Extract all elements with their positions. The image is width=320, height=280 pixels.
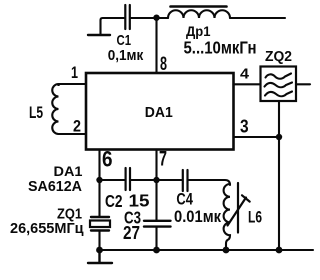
wire C1 to node [131, 17, 157, 19]
wire C4 right lead to L6 [189, 180, 231, 185]
wire ZQ2 bottom [278, 101, 280, 137]
node rail right [276, 247, 283, 254]
node rail L6 [223, 247, 230, 254]
wire C4 left lead [157, 179, 182, 181]
svg-text:L5: L5 [29, 103, 43, 122]
node rail left [96, 247, 103, 254]
node pin6 / C2 [96, 177, 102, 183]
svg-text:ZQ2: ZQ2 [265, 49, 292, 65]
svg-text:27: 27 [123, 222, 140, 243]
wire C3 to rail [155, 228, 157, 251]
ground top-left [88, 34, 110, 36]
IC DA1 [86, 73, 234, 150]
wire pin 6 down [98, 150, 100, 218]
svg-text:DA1: DA1 [54, 163, 83, 179]
filter ZQ2 wave 2 [265, 83, 293, 88]
svg-text:0,1мк: 0,1мк [108, 48, 144, 64]
wire pin 4 [234, 83, 262, 85]
capacitor C2 [126, 168, 130, 190]
wire pin 3 [234, 136, 280, 138]
wire pin 1 [60, 83, 86, 85]
svg-text:7: 7 [159, 148, 167, 171]
svg-text:DA1: DA1 [145, 105, 173, 121]
node pin7 / C4 [153, 177, 159, 183]
wire pin 8 [155, 18, 157, 73]
svg-text:1: 1 [71, 63, 78, 82]
svg-text:26,655МГц: 26,655МГц [10, 221, 84, 237]
wire ZQ1 to rail [98, 231, 100, 250]
node junction at +V rail [153, 15, 159, 21]
crystal ZQ1 body [90, 221, 110, 228]
core bar Dr1 [171, 5, 227, 8]
wire ZQ2 right stub [296, 83, 310, 85]
crystal ZQ1 bottom plate [91, 229, 109, 231]
node rail pin7 [153, 247, 160, 254]
inductor L6 [224, 184, 230, 250]
inductor L5 [52, 84, 60, 134]
inductor Dr1 [168, 10, 230, 18]
capacitor C4 [183, 170, 188, 191]
adjuster arrow L6 [228, 195, 250, 225]
svg-text:4: 4 [240, 66, 250, 82]
wire node to Dr1 [157, 17, 169, 19]
svg-text:8: 8 [160, 53, 167, 75]
svg-text:2: 2 [73, 118, 81, 136]
wire C1 left lead to ground corner [101, 18, 125, 34]
svg-text:3: 3 [240, 116, 249, 137]
core bar L6 [237, 183, 239, 233]
filter ZQ2 [261, 67, 297, 102]
svg-text:C4: C4 [176, 190, 193, 209]
crystal ZQ1 top plate [91, 216, 109, 218]
node pin3 / ZQ2 [276, 134, 282, 140]
wire bottom rail [100, 249, 314, 251]
filter ZQ2 wave 1 [266, 74, 292, 79]
svg-text:C2: C2 [105, 191, 123, 211]
svg-text:0.01мк: 0.01мк [174, 207, 221, 226]
capacitor C1 [125, 5, 130, 29]
filter ZQ2 wave 3 [265, 92, 292, 97]
capacitor C3 [144, 221, 171, 227]
wire C2 right lead [131, 179, 157, 181]
wire C2 left lead [100, 179, 125, 181]
svg-text:6: 6 [102, 147, 113, 172]
wire Dr1 to +V stub [230, 17, 285, 19]
svg-text:5...10мкГн: 5...10мкГн [184, 37, 257, 57]
svg-text:C1: C1 [117, 33, 132, 49]
wire right vertical [278, 137, 280, 250]
svg-text:SA612A: SA612A [28, 178, 82, 195]
wire pin 7 down [155, 150, 157, 221]
svg-text:L6: L6 [248, 207, 262, 226]
ground bottom [88, 250, 112, 263]
wire pin 2 [59, 133, 87, 135]
